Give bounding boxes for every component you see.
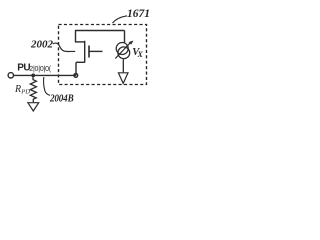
source lead bbox=[75, 62, 77, 75]
leader for 2004B bbox=[44, 77, 50, 95]
dashed enclosure box 1671 bbox=[59, 25, 147, 85]
channel bbox=[84, 41, 86, 63]
open arrow head down bbox=[118, 73, 128, 84]
resistor RPD bbox=[30, 75, 36, 102]
source arm bbox=[76, 61, 85, 63]
leader for 1671 bbox=[113, 16, 128, 23]
gate bar bbox=[88, 46, 90, 58]
junction dot at resistor bbox=[31, 74, 35, 78]
transistor Q 2002 bbox=[75, 30, 103, 76]
variable arrow through source bbox=[115, 42, 131, 58]
svg-text:2004B: 2004B bbox=[49, 93, 74, 104]
wire: below source bbox=[122, 59, 124, 72]
input terminal bbox=[8, 73, 13, 78]
gate lead bbox=[89, 50, 103, 52]
svg-text:R: R bbox=[14, 84, 21, 95]
leader for 2002 bbox=[53, 43, 75, 51]
svg-text:1671: 1671 bbox=[127, 8, 150, 20]
wire: top rail bbox=[76, 30, 125, 32]
svg-text:2|0|0|0(: 2|0|0|0( bbox=[29, 66, 51, 73]
svg-text:2002: 2002 bbox=[30, 38, 54, 50]
wire: drop to source symbol bbox=[124, 31, 126, 43]
ground bbox=[28, 103, 39, 111]
drain lead bbox=[75, 30, 77, 42]
svg-text:PD: PD bbox=[20, 89, 30, 96]
current source VX: two overlapping circles bbox=[116, 43, 130, 59]
wire: PU net bbox=[14, 74, 76, 76]
junction node at source bbox=[74, 74, 78, 78]
svg-text:X: X bbox=[137, 50, 144, 59]
drain arm bbox=[75, 41, 85, 43]
